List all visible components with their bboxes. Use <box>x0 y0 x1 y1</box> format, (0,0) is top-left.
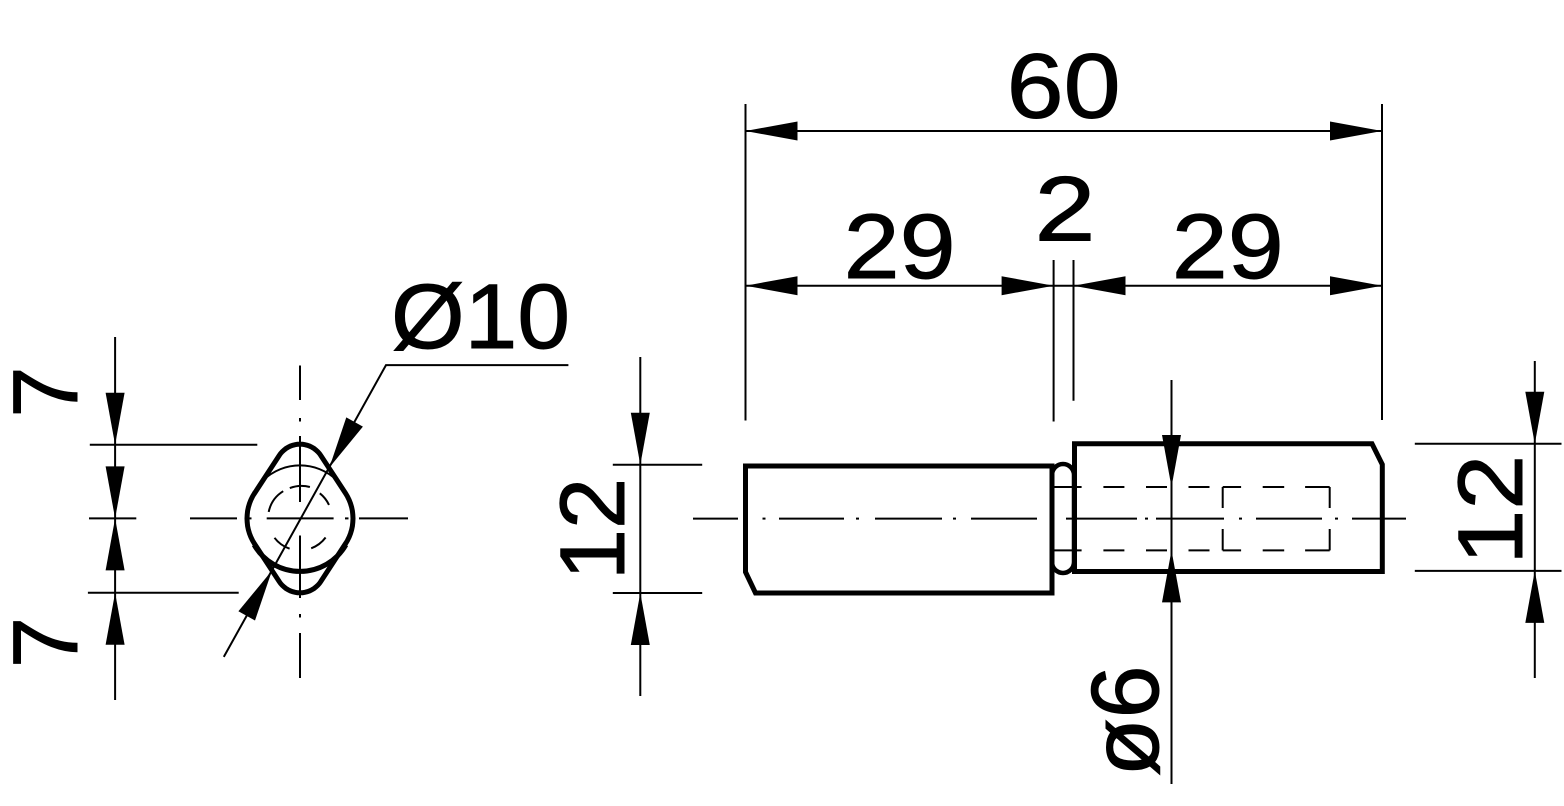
side view: pin capsule between leaves <box>1052 464 1074 573</box>
svg-text:60: 60 <box>1007 36 1121 138</box>
dimension 12 right: arrowheads <box>1525 392 1544 623</box>
dimension 7/7: extension tick middle <box>89 517 136 519</box>
dimension 2: extension line left <box>1053 260 1055 422</box>
dimension ø6: dimension line <box>1171 380 1173 784</box>
svg-text:12: 12 <box>1440 455 1542 565</box>
end view: Ø10 barrel circle <box>247 465 353 571</box>
dimension ø6: arrowheads <box>1162 435 1181 602</box>
svg-text:29: 29 <box>1172 196 1284 298</box>
dimension 7/7: vertical dimension line <box>114 337 116 700</box>
side view: hidden pin hole lines (dashed) <box>1103 487 1329 550</box>
dimension 60: extension line right <box>1381 104 1383 420</box>
svg-text:2: 2 <box>1035 158 1096 260</box>
dimension 12 right: extension ticks <box>1415 443 1562 445</box>
dimension 7/7: arrowheads <box>106 393 125 645</box>
leader arrowhead lower (points up-right at lens edge) <box>238 571 272 621</box>
end view: vertical centerline <box>299 366 301 679</box>
svg-text:Ø10: Ø10 <box>391 266 570 368</box>
dimension 2: extension line right <box>1073 260 1075 401</box>
dimension 12 left: extension ticks <box>613 464 702 466</box>
end view: pointed-oval (lens) tip outline <box>247 444 353 593</box>
end view: hidden ø6 pin circle (dashed) <box>269 486 329 549</box>
side view: visible pin edges in gap <box>1052 486 1082 488</box>
svg-text:7: 7 <box>0 366 97 417</box>
dimension 29-2-29: arrowheads <box>746 276 1383 295</box>
dimension 12 right: dimension line <box>1534 361 1536 678</box>
end view: knuckle separation arc (thick smile) <box>254 545 346 572</box>
dimension 60: arrowheads <box>746 122 1383 141</box>
side view: horizontal centerline <box>693 518 1406 520</box>
dimension 60: extension line left <box>745 104 747 421</box>
dimension 7/7: extension tick bottom <box>88 592 239 594</box>
dimension 60: dimension line <box>746 130 1383 132</box>
dimension 29-2-29: dimension line <box>746 285 1383 287</box>
svg-text:29: 29 <box>844 196 956 298</box>
leader line for Ø10 <box>224 365 569 657</box>
dimension 12 left: arrowheads <box>631 413 650 645</box>
svg-text:7: 7 <box>0 617 97 668</box>
side view: hidden cavity verticals (dashed) <box>1223 487 1330 550</box>
side view: upper leaf outline (right body) <box>1075 444 1383 572</box>
dimension 12 left: dimension line <box>639 357 641 696</box>
svg-text:ø6: ø6 <box>1072 666 1179 777</box>
svg-text:12: 12 <box>542 478 644 580</box>
dimension 7/7: extension tick top <box>90 444 257 446</box>
side view: lower leaf outline (left body) <box>746 466 1053 593</box>
leader arrowhead upper (points down-left at lens edge) <box>329 417 363 467</box>
end view: horizontal centerline <box>190 517 408 519</box>
